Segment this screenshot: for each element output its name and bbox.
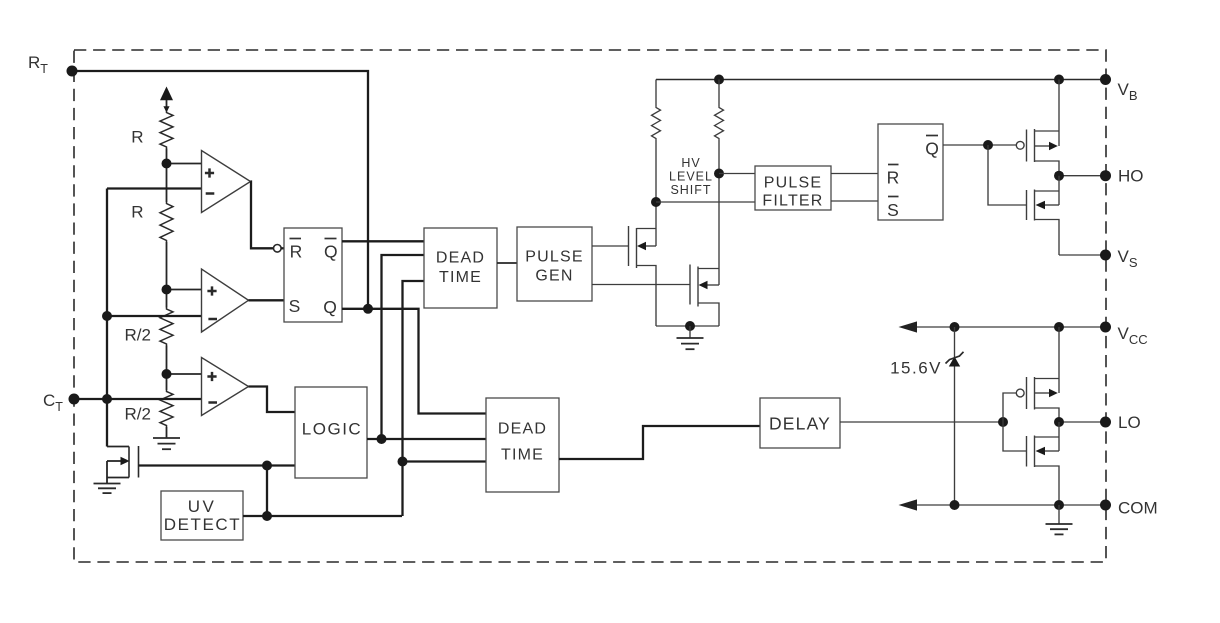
svg-text:DETECT: DETECT bbox=[164, 515, 242, 534]
svg-text:R: R bbox=[131, 128, 143, 147]
svg-text:LO: LO bbox=[1118, 413, 1141, 432]
svg-text:GEN: GEN bbox=[535, 267, 573, 284]
svg-text:FILTER: FILTER bbox=[762, 192, 823, 209]
svg-text:DEAD: DEAD bbox=[498, 420, 547, 437]
svg-text:PULSE: PULSE bbox=[764, 174, 822, 191]
svg-text:S: S bbox=[887, 200, 899, 220]
svg-text:R: R bbox=[290, 241, 303, 261]
svg-text:Q: Q bbox=[925, 138, 939, 158]
svg-text:LOGIC: LOGIC bbox=[302, 420, 362, 439]
svg-text:COM: COM bbox=[1118, 499, 1158, 518]
svg-text:TIME: TIME bbox=[439, 269, 482, 286]
svg-text:R/2: R/2 bbox=[125, 405, 151, 424]
svg-text:R: R bbox=[887, 167, 900, 187]
svg-text:TIME: TIME bbox=[501, 446, 544, 463]
svg-text:LEVEL: LEVEL bbox=[669, 170, 713, 184]
svg-text:SHIFT: SHIFT bbox=[670, 183, 711, 197]
svg-text:DELAY: DELAY bbox=[769, 413, 831, 433]
svg-text:Q: Q bbox=[324, 241, 338, 261]
svg-text:PULSE: PULSE bbox=[525, 248, 583, 265]
svg-text:HO: HO bbox=[1118, 167, 1144, 186]
svg-text:UV: UV bbox=[188, 497, 217, 516]
svg-text:Q: Q bbox=[323, 297, 337, 317]
svg-text:S: S bbox=[289, 296, 301, 316]
svg-text:15.6V: 15.6V bbox=[890, 359, 942, 378]
svg-text:HV: HV bbox=[681, 156, 700, 170]
svg-text:R/2: R/2 bbox=[125, 326, 151, 345]
svg-text:R: R bbox=[131, 203, 143, 222]
svg-text:DEAD: DEAD bbox=[436, 249, 485, 266]
